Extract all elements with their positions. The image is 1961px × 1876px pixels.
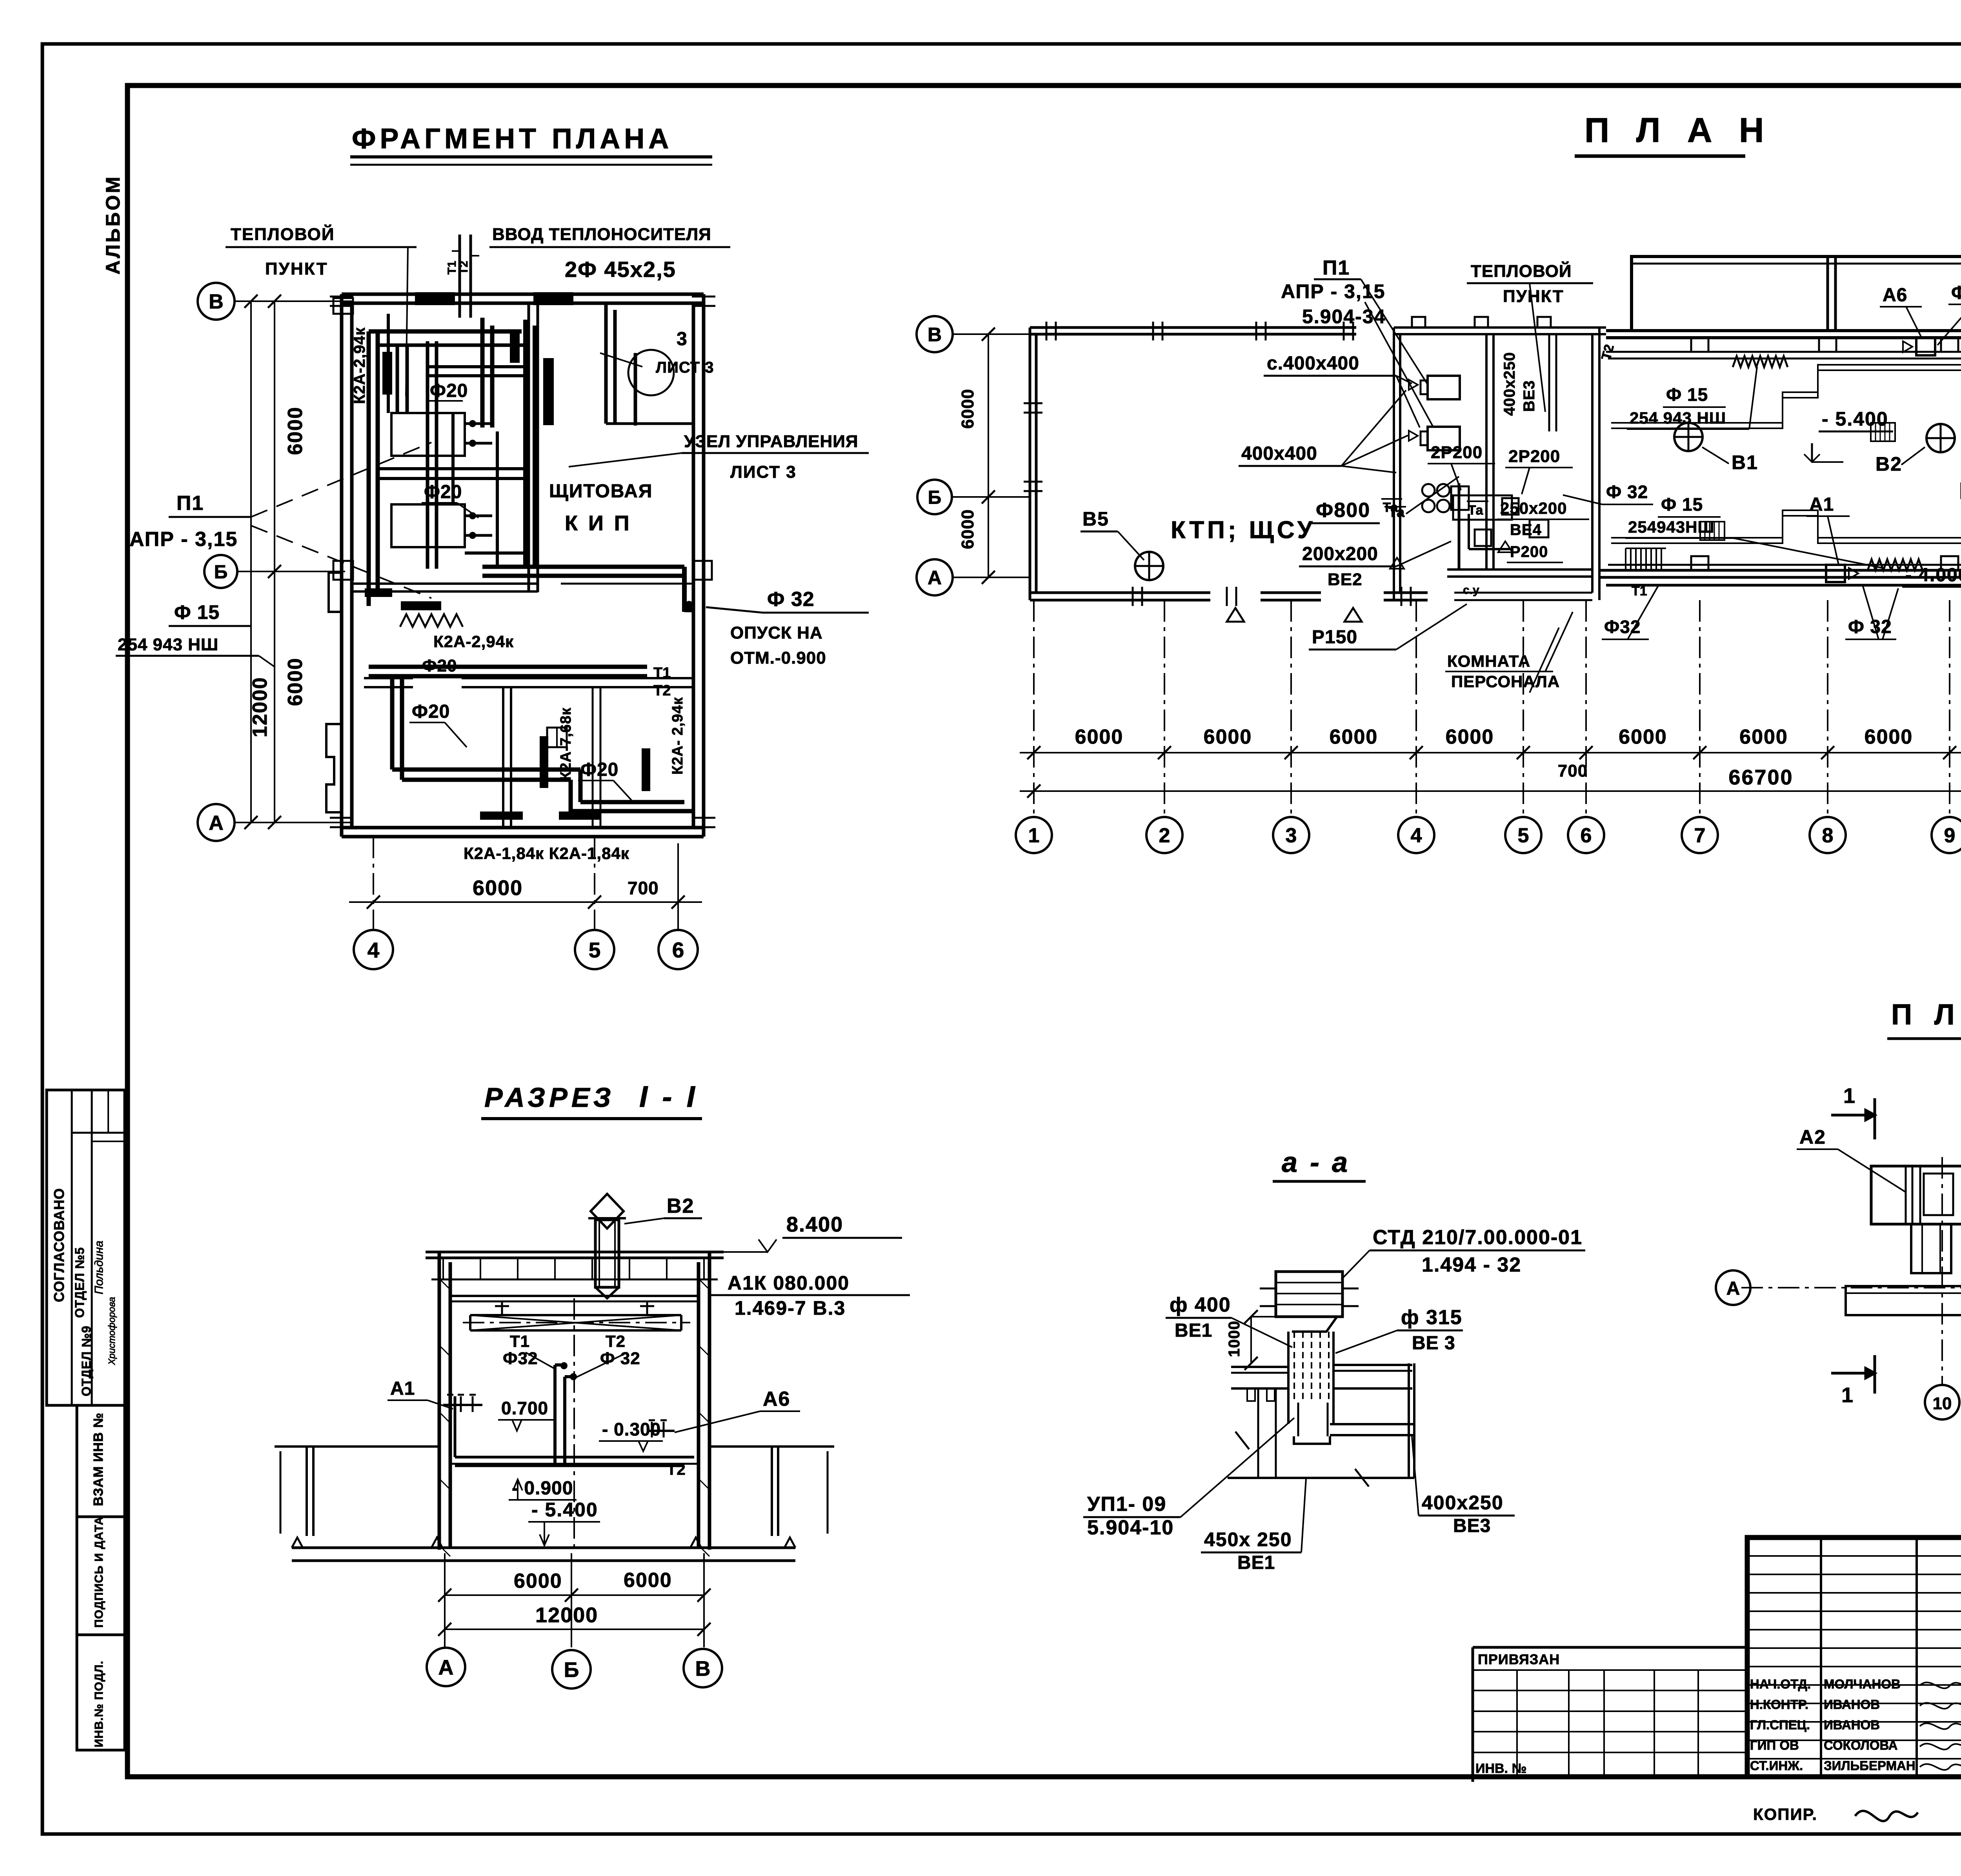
svg-text:Христофорова: Христофорова <box>107 1297 117 1365</box>
svg-text:ИНВ.№ ПОДЛ.: ИНВ.№ ПОДЛ. <box>93 1661 106 1747</box>
svg-text:Н.КОНТР.: Н.КОНТР. <box>1750 1697 1808 1712</box>
svg-text:Т2: Т2 <box>606 1332 626 1350</box>
svg-text:ПОДПИСЬ И ДАТА: ПОДПИСЬ И ДАТА <box>93 1516 106 1628</box>
svg-text:Ф 15: Ф 15 <box>1661 494 1703 515</box>
svg-text:8: 8 <box>1822 824 1834 847</box>
svg-text:Т1: Т1 <box>446 261 458 275</box>
svg-text:6000: 6000 <box>958 509 977 549</box>
svg-text:ИВАНОВ: ИВАНОВ <box>1824 1697 1880 1712</box>
svg-text:6000: 6000 <box>1865 726 1913 748</box>
svg-text:УЗЕЛ УПРАВЛЕНИЯ: УЗЕЛ УПРАВЛЕНИЯ <box>684 432 859 451</box>
svg-text:А2: А2 <box>1799 1126 1826 1148</box>
svg-text:ОПУСК НА: ОПУСК НА <box>730 623 823 642</box>
svg-text:5.904-10: 5.904-10 <box>1087 1516 1174 1539</box>
svg-text:А: А <box>928 567 942 589</box>
svg-text:ЛИСТ 3: ЛИСТ 3 <box>730 462 797 482</box>
svg-text:ТЕПЛОВОЙ: ТЕПЛОВОЙ <box>231 224 335 244</box>
svg-text:ИВАНОВ: ИВАНОВ <box>1824 1718 1880 1732</box>
svg-text:6000: 6000 <box>473 876 523 900</box>
svg-text:ВЕ2: ВЕ2 <box>1328 570 1363 589</box>
svg-text:254 943 НШ: 254 943 НШ <box>118 635 218 654</box>
svg-text:В: В <box>695 1657 711 1680</box>
svg-text:Ф 32: Ф 32 <box>1848 617 1892 637</box>
svg-text:К И П: К И П <box>565 511 632 535</box>
svg-text:ЩИТОВАЯ: ЩИТОВАЯ <box>549 481 653 502</box>
svg-text:6000: 6000 <box>284 406 307 455</box>
svg-text:3: 3 <box>677 329 688 349</box>
svg-text:П1: П1 <box>1322 257 1350 279</box>
svg-text:1000: 1000 <box>1226 1321 1243 1357</box>
svg-text:В2: В2 <box>667 1195 694 1217</box>
svg-text:8.400: 8.400 <box>786 1213 843 1236</box>
svg-text:К2А-2,94к: К2А-2,94к <box>433 632 514 651</box>
svg-text:ОТМ.-0.900: ОТМ.-0.900 <box>730 648 826 668</box>
svg-text:1.469-7 В.3: 1.469-7 В.3 <box>735 1297 846 1319</box>
svg-text:Ф 32: Ф 32 <box>767 588 815 611</box>
svg-text:5: 5 <box>1518 824 1529 847</box>
svg-text:6: 6 <box>1581 824 1592 847</box>
svg-text:254943НШ: 254943НШ <box>1628 518 1715 536</box>
svg-text:а - а: а - а <box>1282 1147 1350 1178</box>
svg-text:Т1: Т1 <box>653 665 671 681</box>
svg-text:Б: Б <box>564 1658 579 1681</box>
svg-text:А: А <box>1726 1278 1740 1299</box>
svg-text:Т2: Т2 <box>457 261 470 275</box>
svg-text:К2А-1,84к К2А-1,84к: К2А-1,84к К2А-1,84к <box>464 844 629 862</box>
svg-text:ВЕ1: ВЕ1 <box>1237 1552 1275 1573</box>
svg-text:ВВОД ТЕПЛОНОСИТЕЛЯ: ВВОД ТЕПЛОНОСИТЕЛЯ <box>492 225 711 244</box>
svg-text:УП1- 09: УП1- 09 <box>1087 1493 1166 1516</box>
svg-text:1: 1 <box>1028 824 1040 847</box>
svg-text:400х250: 400х250 <box>1501 352 1518 416</box>
svg-text:ВЕ4: ВЕ4 <box>1510 521 1542 539</box>
svg-text:Ф20: Ф20 <box>424 482 462 502</box>
svg-text:2Р200: 2Р200 <box>1508 447 1560 466</box>
svg-text:Ф 15: Ф 15 <box>174 601 220 623</box>
svg-text:ПРИВЯЗАН: ПРИВЯЗАН <box>1478 1651 1560 1667</box>
svg-text:450х 250: 450х 250 <box>1204 1528 1292 1550</box>
svg-text:Р150: Р150 <box>1312 627 1357 648</box>
svg-text:I - I: I - I <box>639 1080 698 1114</box>
svg-text:Ф20: Ф20 <box>422 656 457 675</box>
svg-text:КОПИР.: КОПИР. <box>1753 1805 1817 1823</box>
svg-text:П Л А Н: П Л А Н <box>1891 998 1961 1031</box>
svg-text:- 4.000: - 4.000 <box>1905 565 1961 586</box>
svg-text:РАЗРЕЗ: РАЗРЕЗ <box>484 1082 615 1113</box>
svg-text:Т2: Т2 <box>667 1461 686 1478</box>
svg-text:КТП; ЩСУ: КТП; ЩСУ <box>1171 517 1315 544</box>
svg-text:ВЗАМ ИНВ №: ВЗАМ ИНВ № <box>91 1412 106 1506</box>
svg-text:К2А-7,68к: К2А-7,68к <box>558 708 574 781</box>
svg-text:ВЕ3: ВЕ3 <box>1521 380 1538 412</box>
svg-text:с.400х400: с.400х400 <box>1267 353 1359 374</box>
svg-text:ФРАГМЕНТ ПЛАНА: ФРАГМЕНТ ПЛАНА <box>352 123 673 155</box>
svg-text:К2А- 2,94к: К2А- 2,94к <box>669 697 686 775</box>
svg-text:Б: Б <box>928 487 942 508</box>
svg-text:ГИП ОВ: ГИП ОВ <box>1750 1738 1799 1752</box>
svg-text:АПР - 3,15: АПР - 3,15 <box>129 528 238 551</box>
svg-text:Т2: Т2 <box>653 682 671 699</box>
svg-text:АЛЬБОМ: АЛЬБОМ <box>102 175 124 275</box>
svg-text:А1К 080.000: А1К 080.000 <box>728 1272 850 1294</box>
svg-text:ПЕРСОНАЛА: ПЕРСОНАЛА <box>1451 672 1560 691</box>
svg-text:Ф 32: Ф 32 <box>600 1349 640 1368</box>
svg-text:А: А <box>209 812 224 835</box>
svg-text:Т1: Т1 <box>510 1332 530 1350</box>
svg-text:9: 9 <box>1944 824 1956 847</box>
svg-text:Ф32: Ф32 <box>1951 282 1961 303</box>
svg-text:В5: В5 <box>1082 508 1109 530</box>
svg-text:6000: 6000 <box>1619 726 1667 748</box>
svg-text:4: 4 <box>1411 824 1422 847</box>
svg-text:400х400: 400х400 <box>1241 443 1317 464</box>
svg-text:СОГЛАСОВАНО: СОГЛАСОВАНО <box>51 1188 67 1302</box>
svg-text:5: 5 <box>589 938 601 962</box>
svg-text:Ф 15: Ф 15 <box>1666 384 1708 405</box>
svg-text:Ф 32: Ф 32 <box>1606 482 1648 502</box>
svg-text:КОМНАТА: КОМНАТА <box>1447 652 1530 670</box>
svg-text:Ф20: Ф20 <box>580 759 618 780</box>
svg-text:Та: Та <box>1468 503 1484 518</box>
svg-text:СТ.ИНЖ.: СТ.ИНЖ. <box>1750 1758 1803 1773</box>
svg-text:254 943 НШ: 254 943 НШ <box>1630 409 1726 427</box>
svg-text:П Л А Н: П Л А Н <box>1584 111 1772 149</box>
svg-text:А1: А1 <box>390 1378 415 1399</box>
svg-text:- 0.300: - 0.300 <box>602 1419 661 1439</box>
svg-text:6000: 6000 <box>1075 726 1124 748</box>
svg-text:А1: А1 <box>1809 494 1834 515</box>
svg-text:Ф20: Ф20 <box>430 380 468 401</box>
svg-text:СОКОЛОВА: СОКОЛОВА <box>1824 1738 1898 1752</box>
svg-text:ВЕ1: ВЕ1 <box>1175 1320 1212 1341</box>
svg-text:ОТДЕЛ №9: ОТДЕЛ №9 <box>79 1325 93 1396</box>
svg-text:12000: 12000 <box>535 1603 598 1627</box>
svg-text:- 5.400: - 5.400 <box>531 1499 598 1521</box>
svg-text:СТД 210/7.00.000-01: СТД 210/7.00.000-01 <box>1373 1226 1583 1249</box>
svg-text:700: 700 <box>1558 761 1588 781</box>
svg-text:с.у: с.у <box>1463 584 1479 597</box>
svg-text:В1: В1 <box>1732 451 1758 473</box>
svg-text:6: 6 <box>672 938 684 962</box>
svg-text:К2А-2,94к: К2А-2,94к <box>351 327 368 404</box>
svg-text:НАЧ.ОТД.: НАЧ.ОТД. <box>1750 1677 1811 1691</box>
svg-text:Т1: Т1 <box>1632 584 1647 599</box>
svg-text:3: 3 <box>1286 824 1297 847</box>
svg-text:ТЕПЛОВОЙ: ТЕПЛОВОЙ <box>1471 261 1572 281</box>
svg-text:Ф800: Ф800 <box>1316 499 1370 522</box>
svg-text:66700: 66700 <box>1728 766 1793 789</box>
svg-text:ГЛ.СПЕЦ.: ГЛ.СПЕЦ. <box>1750 1718 1810 1732</box>
svg-text:10: 10 <box>1933 1394 1952 1413</box>
svg-text:6000: 6000 <box>958 389 977 429</box>
svg-text:400х250: 400х250 <box>1422 1492 1504 1514</box>
svg-text:В: В <box>928 324 942 346</box>
svg-text:200х200: 200х200 <box>1302 544 1378 564</box>
svg-text:Ф20: Ф20 <box>412 701 450 722</box>
svg-text:МОЛЧАНОВ: МОЛЧАНОВ <box>1824 1677 1901 1691</box>
svg-text:6000: 6000 <box>1446 726 1494 748</box>
svg-text:Р200: Р200 <box>1510 543 1548 560</box>
svg-text:4: 4 <box>367 938 380 962</box>
svg-text:6000: 6000 <box>514 1570 562 1592</box>
svg-text:Польдина: Польдина <box>93 1241 106 1294</box>
svg-text:ВЕ3: ВЕ3 <box>1453 1516 1491 1536</box>
svg-text:7: 7 <box>1694 824 1706 847</box>
svg-text:ЗИЛЬБЕРМАН: ЗИЛЬБЕРМАН <box>1824 1758 1916 1773</box>
svg-text:П1: П1 <box>176 492 204 515</box>
svg-text:1: 1 <box>1841 1383 1853 1407</box>
svg-text:1.494 - 32: 1.494 - 32 <box>1422 1254 1521 1276</box>
svg-text:1: 1 <box>1843 1084 1855 1108</box>
svg-text:250х200: 250х200 <box>1500 499 1567 517</box>
svg-text:6000: 6000 <box>1204 726 1252 748</box>
svg-text:А: А <box>438 1656 454 1679</box>
svg-text:2Ф 45х2,5: 2Ф 45х2,5 <box>565 257 676 282</box>
svg-text:2: 2 <box>1159 824 1170 847</box>
svg-text:6000: 6000 <box>284 657 307 706</box>
svg-text:А6: А6 <box>1883 285 1907 306</box>
svg-text:6000: 6000 <box>624 1569 672 1592</box>
svg-text:Б: Б <box>214 562 228 582</box>
svg-text:ф 400: ф 400 <box>1170 1294 1231 1316</box>
svg-text:М А Ш З А Л: М А Ш З А Л <box>1959 478 1961 504</box>
svg-text:ПУНКТ: ПУНКТ <box>1503 287 1564 306</box>
svg-text:6000: 6000 <box>1739 726 1788 748</box>
svg-text:ИНВ. №: ИНВ. № <box>1475 1761 1526 1776</box>
svg-text:6000: 6000 <box>1330 726 1378 748</box>
svg-text:В: В <box>209 291 224 313</box>
svg-text:АПР - 3,15: АПР - 3,15 <box>1281 280 1385 302</box>
svg-text:ф 315: ф 315 <box>1401 1306 1463 1329</box>
svg-text:Ф32: Ф32 <box>503 1349 538 1368</box>
svg-text:2Р200: 2Р200 <box>1431 443 1483 462</box>
svg-text:700: 700 <box>628 878 659 898</box>
svg-text:ВЕ 3: ВЕ 3 <box>1412 1333 1455 1354</box>
svg-text:ОТДЕЛ №5: ОТДЕЛ №5 <box>73 1247 87 1318</box>
svg-text:ПУНКТ: ПУНКТ <box>265 259 328 278</box>
svg-text:- 5.400: - 5.400 <box>1822 408 1888 430</box>
svg-text:А6: А6 <box>763 1388 790 1410</box>
svg-text:ЛИСТ 3: ЛИСТ 3 <box>656 359 714 376</box>
svg-text:В2: В2 <box>1876 453 1902 475</box>
svg-text:12000: 12000 <box>249 677 271 737</box>
svg-text:0.700: 0.700 <box>501 1398 548 1418</box>
